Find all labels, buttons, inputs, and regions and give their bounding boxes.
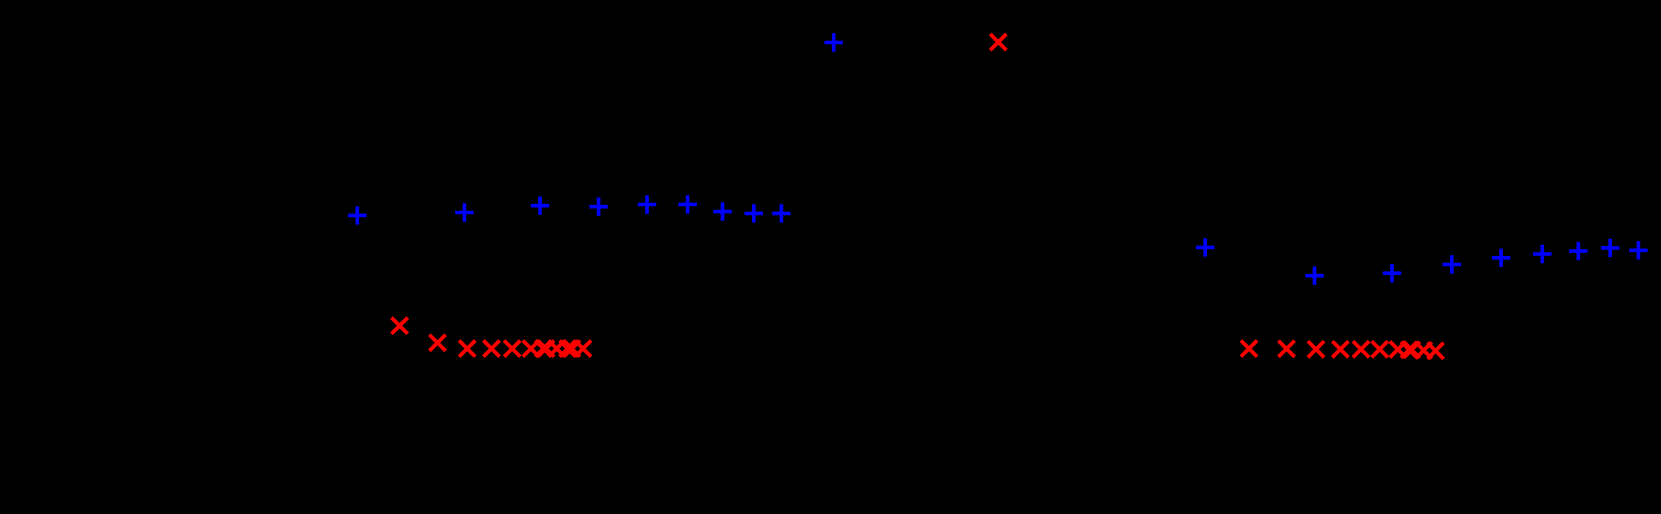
data point plus B1: [348, 206, 366, 224]
data point cross R2: [429, 335, 445, 351]
data point plus B11: [1305, 267, 1323, 285]
data point plus B9: [772, 204, 790, 222]
legend sample series-2 cross: [990, 34, 1006, 50]
data point cross R7: [535, 341, 551, 357]
data point plus B12: [1383, 264, 1401, 282]
data point cross R5: [504, 341, 520, 357]
data point plus B2: [455, 203, 473, 221]
data point plus B10: [1196, 238, 1214, 256]
data point cross R21: [1404, 342, 1420, 358]
data point plus B5: [638, 195, 656, 213]
data point plus B14: [1492, 249, 1510, 267]
data point cross R12: [575, 341, 591, 357]
data point plus B18: [1629, 241, 1647, 259]
data point cross R3: [459, 341, 475, 357]
data point plus B16: [1569, 242, 1587, 260]
data point cross R23: [1427, 343, 1443, 359]
data point cross R16: [1332, 341, 1348, 357]
data point plus B4: [589, 198, 607, 216]
data point plus B7: [713, 202, 731, 220]
data point cross R22: [1416, 342, 1432, 358]
data point cross R13: [1241, 341, 1257, 357]
data point plus B15: [1533, 245, 1551, 263]
data point plus B6: [678, 195, 696, 213]
data point cross R20: [1401, 342, 1417, 358]
data point plus B3: [531, 197, 549, 215]
data point plus B17: [1601, 239, 1619, 257]
data point cross R6: [523, 341, 539, 357]
data point cross R19: [1390, 341, 1406, 357]
legend sample series-1 plus: [825, 33, 843, 51]
data point cross R4: [483, 341, 499, 357]
data point cross R9: [549, 341, 565, 357]
data point cross R15: [1308, 341, 1324, 357]
data point cross R17: [1353, 341, 1369, 357]
data point cross R1: [392, 318, 408, 334]
data point cross R18: [1372, 341, 1388, 357]
data point cross R10: [560, 341, 576, 357]
data point plus B8: [745, 204, 763, 222]
data point plus B13: [1443, 255, 1461, 273]
data point cross R14: [1278, 341, 1294, 357]
data point cross R8: [538, 341, 554, 357]
data point cross R11: [564, 341, 580, 357]
